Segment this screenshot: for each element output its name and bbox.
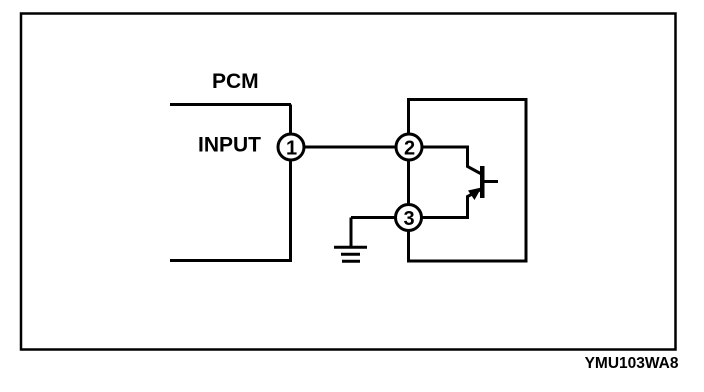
svg-text:INPUT: INPUT [198,134,261,157]
svg-text:1: 1 [286,138,297,160]
svg-text:2: 2 [404,138,415,160]
svg-text:YMU103WA8: YMU103WA8 [585,355,679,372]
svg-text:3: 3 [403,208,414,230]
svg-text:PCM: PCM [212,70,259,93]
